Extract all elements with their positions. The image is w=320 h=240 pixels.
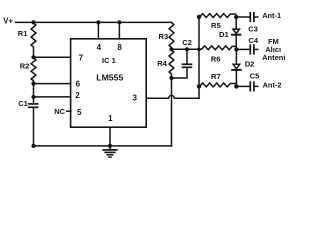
- wire NC stub: [67, 110, 71, 112]
- resistor R5: [200, 14, 236, 18]
- wire pin6 to pin2: [33, 84, 35, 97]
- svg-text:R7: R7: [211, 72, 221, 81]
- node C1/bottom rail: [31, 144, 35, 148]
- capacitor C1: [33, 97, 35, 103]
- wire bottom rail: [34, 145, 172, 147]
- wire pin1: [109, 127, 111, 146]
- resistor R3: [169, 22, 174, 49]
- capacitor C3: [249, 13, 251, 22]
- node pin2/C1: [31, 95, 35, 99]
- wire R5 to C3: [236, 16, 250, 18]
- resistor R2: [31, 57, 36, 83]
- wire pin7: [34, 56, 71, 58]
- wire pin4 drop: [97, 22, 99, 38]
- svg-text:LM555: LM555: [96, 73, 123, 83]
- svg-text:Ant-1: Ant-1: [262, 11, 281, 20]
- capacitor C2: [186, 49, 188, 63]
- wire C2 bottom to R4: [172, 68, 188, 78]
- svg-text:NC: NC: [54, 107, 65, 116]
- wire pin3 with hop: [146, 95, 199, 98]
- svg-text:V+: V+: [3, 17, 13, 26]
- resistor R4: [169, 49, 174, 78]
- node R4/C2 bottom: [169, 76, 173, 80]
- svg-text:Ant-2: Ant-2: [263, 81, 282, 90]
- resistor R7: [200, 83, 236, 87]
- svg-text:D2: D2: [245, 59, 255, 68]
- svg-text:C5: C5: [250, 71, 260, 80]
- wire pin2: [34, 96, 71, 98]
- resistor R1: [31, 22, 36, 57]
- svg-text:2: 2: [75, 91, 80, 100]
- wire pin3 riser: [198, 17, 200, 98]
- svg-text:R1: R1: [18, 29, 28, 38]
- svg-text:7: 7: [79, 53, 84, 62]
- wire C1 down: [33, 108, 35, 146]
- wire R6 to C4: [236, 48, 249, 50]
- diode D1: [235, 17, 237, 29]
- wire R4/C2 down to ground rail: [171, 78, 173, 146]
- node riser/R6: [197, 48, 201, 52]
- wire pin6: [34, 83, 71, 85]
- svg-text:IC 1: IC 1: [102, 56, 116, 65]
- capacitor C4: [249, 45, 251, 54]
- wire pin8 drop: [118, 22, 120, 38]
- diode D2: [235, 49, 237, 64]
- resistor R6: [199, 46, 236, 50]
- node R3/R4/net A: [169, 47, 173, 51]
- op-amp U1 IC1 LM555 box: [71, 39, 147, 127]
- node D1/R6/C4/D2: [234, 47, 238, 51]
- node R1/R2/pin7: [31, 55, 35, 59]
- node C2 top: [185, 47, 189, 51]
- node R5/D1/C3: [234, 15, 238, 19]
- node rail/pin4: [96, 20, 100, 24]
- svg-text:R2: R2: [20, 61, 30, 70]
- capacitor C5: [249, 82, 251, 91]
- node riser/R5: [197, 15, 201, 19]
- svg-text:C2: C2: [182, 38, 192, 47]
- svg-text:D1: D1: [219, 30, 229, 39]
- svg-text:R6: R6: [211, 55, 221, 64]
- svg-text:1: 1: [108, 114, 113, 123]
- node riser/R7: [197, 84, 201, 88]
- node rail/pin8: [117, 20, 121, 24]
- wire R7 to C5: [236, 85, 249, 87]
- wire net A (R3/C2/R6): [172, 48, 200, 50]
- ground: [109, 146, 111, 150]
- svg-text:8: 8: [117, 43, 122, 52]
- node R2/pin6: [31, 82, 35, 86]
- svg-text:Anteni: Anteni: [262, 53, 285, 62]
- svg-text:R5: R5: [211, 21, 221, 30]
- svg-text:3: 3: [132, 94, 137, 103]
- svg-text:R3: R3: [159, 32, 169, 41]
- node D2/R7/C5: [234, 84, 238, 88]
- svg-text:C3: C3: [248, 25, 258, 34]
- wire V+ top rail: [16, 21, 172, 23]
- svg-text:R4: R4: [157, 59, 167, 68]
- svg-text:C4: C4: [248, 36, 258, 45]
- node pin1/ground: [108, 144, 112, 148]
- svg-text:4: 4: [97, 43, 102, 52]
- svg-text:C1: C1: [18, 99, 28, 108]
- svg-text:5: 5: [77, 108, 82, 117]
- svg-text:6: 6: [76, 80, 81, 89]
- node rail/R1: [31, 20, 35, 24]
